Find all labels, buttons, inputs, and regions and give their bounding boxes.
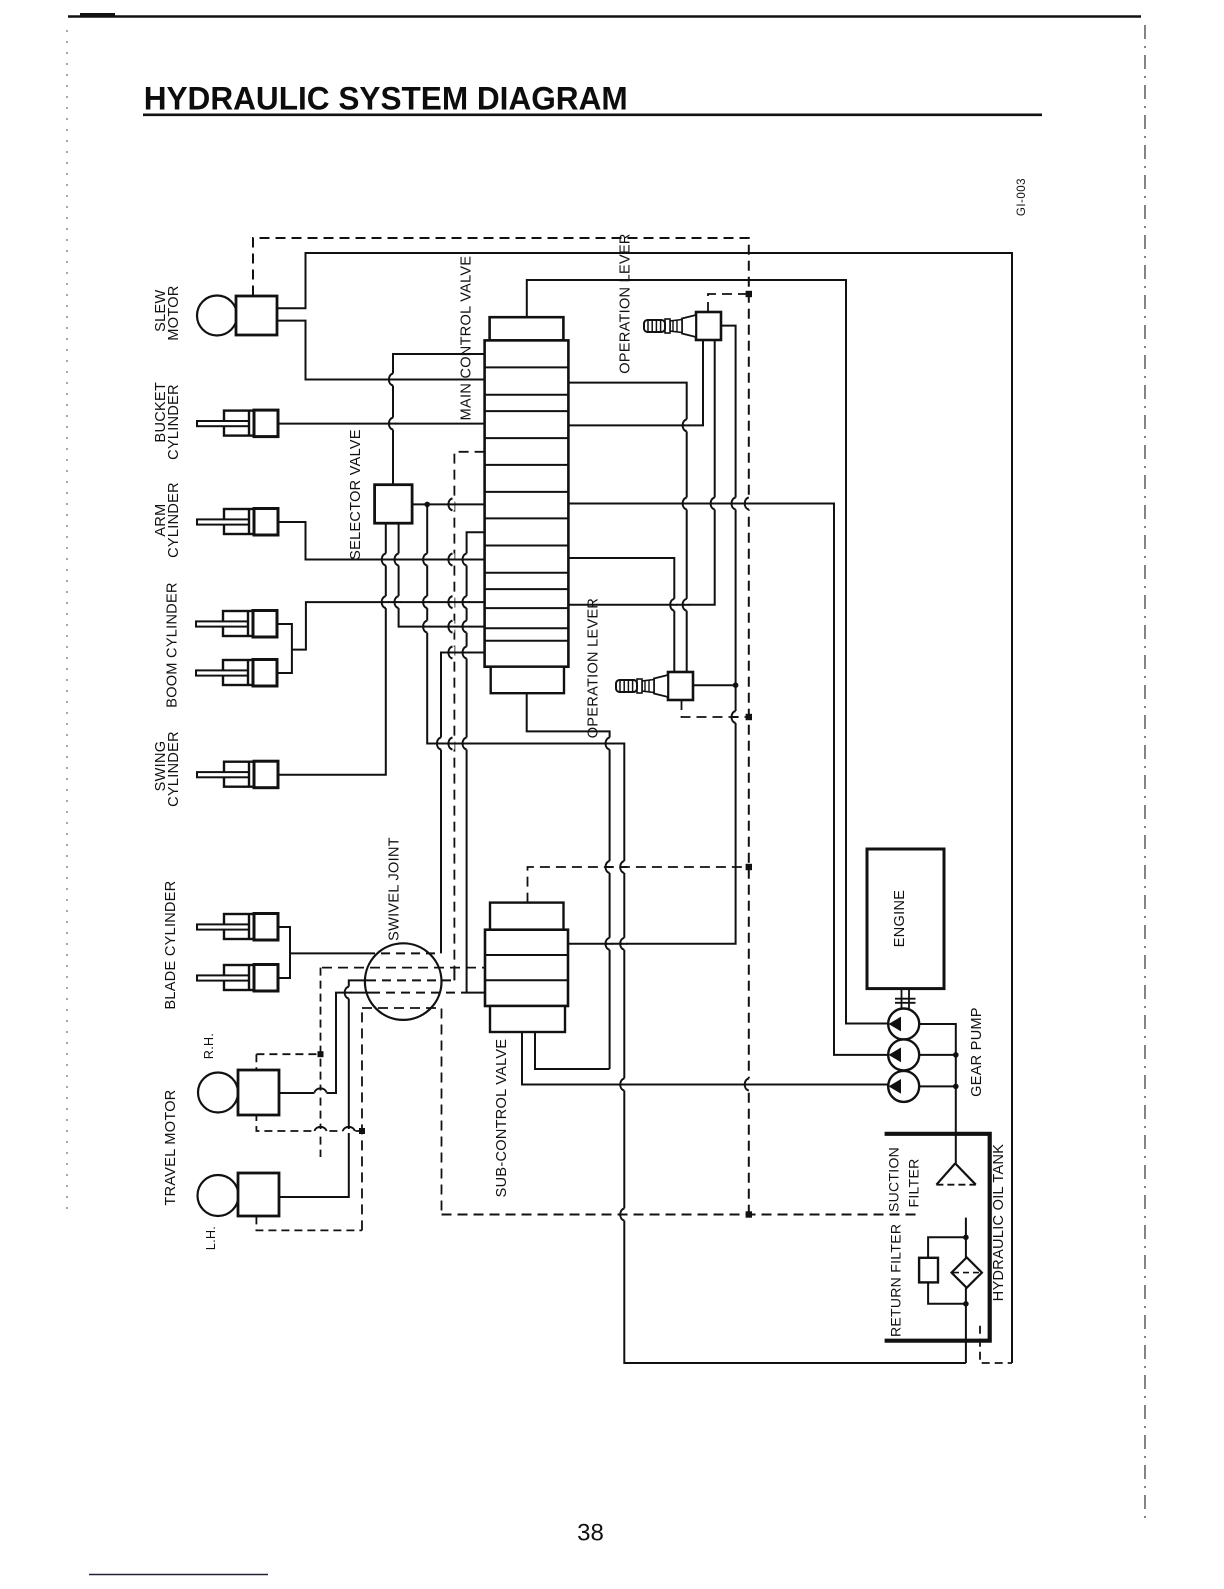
wire: return filter bypass bbox=[928, 1237, 966, 1304]
return filter bbox=[919, 1257, 982, 1287]
travel motor L.H. bbox=[198, 1175, 239, 1216]
svg-text:CYLINDER: CYLINDER bbox=[166, 482, 182, 558]
wire: blade cylinders to swivel joint bbox=[250, 927, 366, 978]
wire: sub-control valve right to lever riser bbox=[568, 326, 736, 944]
hydraulic oil tank bbox=[885, 1134, 990, 1341]
dashed pilot: lever2 bottom bbox=[682, 700, 749, 717]
svg-text:SUCTION: SUCTION bbox=[886, 1147, 902, 1212]
sub-control valve bbox=[485, 903, 568, 1032]
dashed: tank return corner bbox=[980, 1326, 1012, 1363]
wire: valve y532 riser down to sub-control valve bbox=[467, 532, 485, 992]
wire: connector at swivel right bbox=[453, 968, 455, 981]
svg-text:HYDRAULIC SYSTEM DIAGRAM: HYDRAULIC SYSTEM DIAGRAM bbox=[144, 81, 628, 117]
svg-text:TRAVEL MOTOR: TRAVEL MOTOR bbox=[163, 1089, 179, 1205]
wire: selector branch down to return line bbox=[427, 504, 966, 1363]
dashed pilot: sub-control valve top feed bbox=[528, 867, 749, 903]
svg-text:SUB-CONTROL VALVE: SUB-CONTROL VALVE bbox=[494, 1039, 510, 1198]
suction filter bbox=[936, 1163, 975, 1184]
swivel joint bbox=[365, 943, 442, 1020]
bucket cylinder bbox=[224, 411, 254, 436]
svg-text:OPERATION LEVER: OPERATION LEVER bbox=[618, 233, 634, 373]
wire: selector valve right to valve bbox=[412, 503, 485, 505]
wire: selector valve line 2 to valve bbox=[399, 523, 485, 626]
dashed pilot: travel motor R.H. bbox=[256, 968, 362, 1157]
svg-text:R.H.: R.H. bbox=[202, 1033, 216, 1059]
wire: lever2 right to riser junction bbox=[693, 684, 735, 686]
wire: travel motor L.H. through swivel bbox=[260, 980, 367, 1197]
svg-text:SELECTOR VALVE: SELECTOR VALVE bbox=[348, 429, 364, 560]
arm cylinder bbox=[224, 509, 254, 534]
wire: valve bottom to sub-control riser bbox=[527, 693, 610, 1069]
dashed pilot: valve dash feed down to swivel bbox=[454, 452, 484, 968]
wire: lever2 pilot lines up to valve bbox=[568, 558, 674, 672]
travel motor R.H. bbox=[198, 1073, 238, 1113]
wire: swing cylinder to selector valve bbox=[250, 523, 386, 775]
wire: lever1 pilot lines down to valve bbox=[568, 340, 703, 425]
wire: return filter vertical bbox=[965, 1218, 967, 1363]
dashed pilot: rectangle below swivel joint bbox=[362, 1008, 442, 1230]
wire: boom cylinders to valve bbox=[250, 602, 485, 673]
svg-text:38: 38 bbox=[577, 1520, 604, 1547]
svg-text:HYDRAULIC OIL TANK: HYDRAULIC OIL TANK bbox=[991, 1144, 1007, 1301]
dashed pilot: lever1 top bbox=[708, 294, 749, 312]
wire: pump2 to valve right side bbox=[568, 504, 888, 1055]
dashed pilot: bottom run bbox=[442, 1214, 917, 1216]
main control valve bbox=[485, 317, 569, 693]
gear pump 2 bbox=[888, 1039, 919, 1070]
wire: bucket cylinder to valve bbox=[250, 423, 485, 425]
wire: arm cylinder to valve bbox=[250, 522, 485, 560]
junction dot on selector wire bbox=[424, 502, 430, 508]
swing cylinder bbox=[224, 762, 254, 787]
operation lever 1 bbox=[696, 312, 721, 340]
page right border bbox=[1144, 25, 1146, 1520]
svg-text:MAIN CONTROL VALVE: MAIN CONTROL VALVE bbox=[458, 256, 474, 421]
svg-text:FILTER: FILTER bbox=[906, 1159, 922, 1208]
boom cylinder 2 bbox=[223, 660, 253, 685]
wire: valve supply from pump1 bbox=[527, 280, 888, 1024]
page top border bbox=[68, 15, 1141, 18]
selector valve bbox=[375, 485, 413, 524]
engine bbox=[867, 849, 944, 989]
wire: selector valve top tee to valve bbox=[393, 354, 485, 485]
wire: pump output header to suction filter bbox=[919, 1024, 956, 1163]
svg-text:L.H.: L.H. bbox=[204, 1226, 218, 1250]
svg-text:RETURN FILTER: RETURN FILTER bbox=[888, 1224, 904, 1337]
svg-text:CYLINDER: CYLINDER bbox=[166, 384, 182, 460]
dashed pilot: top run from slew motor to right riser bbox=[253, 238, 749, 1216]
blade cylinder 2 bbox=[224, 965, 254, 990]
svg-text:MOTOR: MOTOR bbox=[166, 285, 182, 340]
dashed pilot: travel motor L.H. bbox=[256, 1216, 362, 1230]
svg-text:OPERATION LEVER: OPERATION LEVER bbox=[586, 598, 602, 738]
wire: slew motor lower port to valve bbox=[278, 321, 485, 380]
bottom-left mark bbox=[89, 1574, 268, 1576]
wire crossing jogs bbox=[391, 374, 395, 386]
svg-text:CYLINDER: CYLINDER bbox=[166, 731, 182, 807]
wire: travel motor R.H. through swivel to sub-control valve bbox=[260, 993, 371, 1093]
dashed pilot: swivel to sub-control valve bbox=[322, 967, 485, 969]
gear pump 1 bbox=[888, 1009, 919, 1040]
boom cylinder 1 bbox=[223, 611, 253, 636]
wire: slew motor upper port to pump1 riser top line bbox=[278, 253, 1013, 1363]
svg-text:BLADE CYLINDER: BLADE CYLINDER bbox=[163, 880, 179, 1009]
wire: valve y652 riser down to blade line bbox=[441, 653, 485, 954]
svg-text:BOOM CYLINDER: BOOM CYLINDER bbox=[165, 582, 181, 708]
operation lever 2 bbox=[668, 672, 693, 700]
page left border bbox=[66, 30, 68, 1210]
svg-text:SWIVEL JOINT: SWIVEL JOINT bbox=[387, 837, 403, 941]
svg-text:ENGINE: ENGINE bbox=[892, 890, 908, 947]
svg-text:GEAR PUMP: GEAR PUMP bbox=[969, 1007, 985, 1097]
slew motor bbox=[197, 296, 237, 336]
wire: sub-control valve bottom to pump3 bbox=[522, 1032, 888, 1085]
blade cylinder 1 bbox=[224, 914, 254, 939]
engine-pump shaft coupling bbox=[901, 989, 903, 1009]
svg-text:GI-003: GI-003 bbox=[1016, 178, 1028, 216]
gear pump 3 bbox=[888, 1071, 919, 1102]
wire: sub-control bottom stub to riser bbox=[535, 1032, 610, 1069]
